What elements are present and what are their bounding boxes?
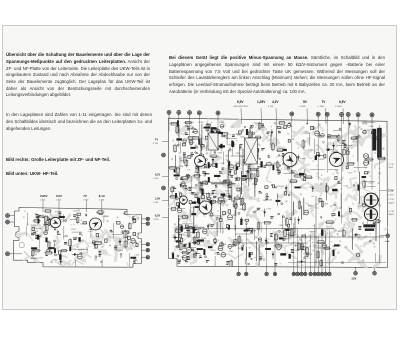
capacitor C731	[299, 173, 304, 175]
capacitor C520	[195, 206, 200, 207]
terminal node 15V	[351, 267, 358, 283]
diode D601	[316, 154, 324, 157]
resistor R299	[251, 172, 253, 180]
capacitor C400	[220, 218, 223, 221]
resistor R280	[206, 123, 209, 132]
coil L301 black bar	[373, 129, 377, 150]
capacitor C697	[273, 165, 275, 170]
trimmer C659	[218, 246, 223, 251]
diode D696	[348, 122, 351, 128]
resistor R339	[176, 125, 178, 134]
terminal node 10 IF board	[346, 113, 350, 169]
capacitor C812	[333, 250, 335, 256]
resistor R443	[193, 236, 196, 246]
capacitor C155	[95, 245, 97, 249]
capacitor C467	[179, 225, 182, 228]
node N365	[206, 159, 208, 161]
diode D258	[197, 163, 200, 171]
diode D704	[353, 234, 360, 237]
resistor R699	[377, 157, 386, 160]
node N176	[120, 253, 122, 255]
node N568	[238, 212, 240, 214]
value label L105	[73, 210, 78, 212]
resistor R545	[286, 217, 289, 226]
svg-text:0,95V: 0,95V	[40, 194, 48, 198]
value label M416	[188, 187, 192, 191]
capacitor C382	[246, 129, 248, 135]
capacitor C228	[70, 247, 72, 251]
diode D332	[201, 141, 204, 149]
wire W759	[216, 128, 218, 143]
wire W763	[178, 219, 180, 243]
capacitor C507	[207, 197, 210, 199]
trimmer C602	[218, 199, 223, 204]
value label M706	[306, 253, 309, 257]
value label L208	[104, 216, 110, 218]
node N407	[205, 256, 207, 258]
capacitor C170	[77, 213, 80, 215]
wire W771	[301, 206, 303, 220]
svg-text:C 1301: C 1301	[299, 106, 306, 108]
resistor R351	[257, 169, 259, 178]
wire W788	[231, 181, 233, 200]
node N233	[226, 137, 228, 139]
diode D657	[311, 186, 314, 192]
capacitor C204	[128, 236, 131, 239]
capacitor C265	[188, 156, 191, 159]
value label L543	[267, 209, 272, 211]
terminal node 9 IF board	[340, 113, 344, 224]
value label M166	[54, 226, 57, 230]
capacitor C383	[181, 238, 183, 242]
capacitor C158	[59, 251, 61, 255]
resistor R450	[174, 230, 183, 233]
capacitor C588	[189, 243, 190, 249]
value label L114	[71, 249, 77, 251]
resistor R741	[230, 259, 233, 268]
value label M310	[222, 168, 224, 170]
voltage label 6,2V C 180 left	[153, 174, 169, 181]
value label M686	[378, 219, 381, 223]
node N531	[251, 231, 253, 233]
value label L106	[52, 260, 58, 262]
diode D505	[193, 252, 200, 255]
svg-text:6mA: 6mA	[385, 240, 390, 243]
capacitor C447	[214, 239, 217, 242]
diode D524	[240, 217, 243, 223]
node N230	[252, 132, 254, 134]
value label M500	[206, 260, 209, 262]
diode D157	[119, 238, 122, 246]
capacitor C474	[232, 141, 234, 147]
resistor R349	[249, 168, 258, 171]
capacitor C199	[32, 228, 35, 231]
svg-text:7V: 7V	[83, 194, 87, 198]
svg-text:C197: C197	[222, 201, 228, 203]
svg-text:5V: 5V	[303, 100, 308, 104]
resistor R621	[265, 163, 273, 166]
value label M404	[180, 226, 183, 228]
value label M370	[187, 175, 191, 177]
value label L534	[267, 200, 273, 202]
value label M489	[228, 184, 231, 188]
terminal node 9 bottom	[309, 235, 313, 276]
value label M250	[204, 164, 207, 168]
capacitor C324	[234, 171, 236, 174]
wire W782	[185, 226, 205, 228]
value label M461	[185, 258, 188, 262]
value label L266	[217, 152, 223, 154]
value label M142	[45, 252, 48, 256]
resistor R734	[317, 250, 319, 260]
value label M697	[358, 226, 361, 230]
terminal node 6mA	[379, 234, 390, 243]
value label L291	[228, 145, 234, 147]
voltage label 0,5V C 921	[56, 194, 62, 212]
capacitor C479	[217, 132, 223, 134]
node N182	[98, 242, 100, 244]
trimmer C750	[276, 244, 281, 249]
wire W772	[303, 198, 305, 215]
node N562	[250, 232, 252, 234]
voltage label 0,95V C 901	[40, 194, 48, 212]
svg-text:500µF: 500µF	[389, 202, 395, 204]
lead wires UKW board	[26, 213, 144, 274]
capacitor C571	[181, 226, 183, 231]
capacitor C629	[285, 229, 290, 231]
resistor R136	[69, 238, 72, 247]
resistor R312	[184, 155, 186, 164]
trimmer C412	[131, 239, 135, 243]
resistor R709	[316, 241, 325, 244]
capacitor C572	[172, 254, 174, 260]
resistor R244	[190, 138, 193, 146]
diode D438	[207, 224, 210, 230]
svg-text:T 302: T 302	[362, 121, 368, 123]
diode D415	[194, 239, 201, 242]
resistor R653	[298, 200, 300, 210]
resistor R344	[174, 144, 177, 154]
value label M642	[278, 171, 282, 175]
wire W783	[193, 207, 195, 230]
capacitor C528	[202, 189, 204, 195]
svg-text:C336: C336	[52, 260, 58, 262]
node N343	[227, 160, 229, 162]
capacitor C695	[315, 156, 317, 160]
capacitor C616	[311, 126, 314, 129]
svg-text:R219: R219	[219, 122, 225, 124]
value label M347	[235, 178, 238, 180]
svg-text:2,9V: 2,9V	[155, 198, 160, 201]
wire bus lower right	[175, 196, 386, 266]
value label L112	[71, 229, 77, 231]
capacitor C590	[316, 153, 319, 156]
resistor R466	[181, 216, 189, 219]
node N490	[178, 218, 180, 220]
value label M497	[215, 184, 218, 188]
node N275	[217, 148, 219, 150]
value label M141	[42, 216, 44, 218]
resistor R388	[199, 181, 202, 190]
resistor R117	[33, 220, 41, 222]
diode D492	[192, 241, 199, 244]
diode D622	[297, 155, 300, 161]
mounting hole UKW board	[20, 243, 25, 248]
node N399	[177, 255, 179, 257]
capacitor C240	[243, 160, 245, 163]
svg-text:1,25V: 1,25V	[257, 100, 266, 104]
diode D570	[265, 238, 268, 245]
capacitor C438	[204, 127, 210, 128]
value label L594	[320, 159, 326, 161]
capacitor C729	[334, 152, 338, 153]
value label M295	[202, 171, 205, 173]
value label M474	[228, 196, 232, 200]
capacitor C720	[288, 156, 294, 158]
wire W768	[357, 137, 359, 162]
value label L121	[31, 258, 37, 260]
capacitor C494	[176, 241, 180, 243]
value label L701	[357, 206, 362, 208]
value label L613	[287, 156, 293, 158]
capacitor C656	[279, 238, 283, 240]
value label M747	[259, 256, 262, 260]
voltage label 1,25V	[257, 100, 266, 124]
diode D118	[130, 241, 137, 244]
svg-text:R514: R514	[191, 128, 197, 130]
resistor R377	[254, 177, 256, 187]
wire W750	[292, 202, 294, 216]
value label M495	[186, 227, 189, 231]
value label M326	[255, 146, 258, 148]
IF transformer F101	[245, 138, 258, 164]
label C734 300uF	[389, 211, 395, 216]
terminal node 3 UKW	[6, 252, 23, 256]
value label M738	[274, 263, 277, 265]
terminal node 7 UKW	[141, 249, 149, 252]
resistor R553	[238, 235, 241, 244]
capacitor C442	[261, 162, 263, 168]
value label M638	[263, 165, 266, 167]
node N711	[341, 262, 343, 264]
diode D242	[203, 172, 210, 175]
node N479	[216, 217, 218, 219]
capacitor C846	[289, 254, 291, 258]
value label M116	[33, 232, 36, 234]
node N520	[245, 223, 247, 225]
value label L260	[243, 165, 249, 167]
value label M617	[288, 163, 291, 165]
trimmer C903	[362, 203, 365, 206]
capacitor C209	[105, 239, 107, 243]
svg-text:R220: R220	[211, 250, 217, 252]
capacitor C615	[265, 248, 270, 250]
capacitor C616	[241, 219, 243, 225]
node N691	[356, 234, 358, 236]
svg-text:0,5V: 0,5V	[56, 194, 62, 198]
node N555	[234, 241, 236, 243]
value label M397	[212, 200, 214, 204]
resistor R702	[371, 137, 380, 139]
resistor R366	[210, 140, 218, 143]
wire W787	[242, 149, 244, 175]
value label M247	[239, 144, 242, 148]
node N217	[188, 137, 190, 139]
value label M627	[277, 169, 281, 171]
value label L251	[208, 128, 213, 130]
value label L558	[278, 225, 284, 227]
value label L652	[308, 206, 314, 208]
capacitor C463	[210, 213, 213, 216]
svg-text:C 180: C 180	[153, 178, 159, 180]
svg-text:C 1302: C 1302	[318, 106, 325, 108]
node N745	[195, 254, 197, 256]
capacitor C368	[212, 131, 214, 136]
capacitor C369	[254, 155, 257, 158]
resistor R635	[304, 176, 313, 179]
capacitor C246	[95, 242, 99, 244]
value label L633	[291, 171, 297, 173]
resistor R259	[191, 137, 200, 139]
resistor R611	[276, 161, 279, 169]
terminal node 7 bottom	[300, 235, 304, 276]
value label L287	[245, 163, 250, 165]
resistor R243	[254, 136, 262, 139]
value label M724	[291, 249, 294, 253]
node N566	[278, 230, 280, 232]
trimmer C401	[46, 221, 49, 224]
node N506	[185, 216, 187, 218]
resistor R220	[248, 130, 251, 139]
capacitor C169	[96, 234, 99, 237]
capacitor C229	[59, 255, 61, 260]
node N582	[275, 187, 277, 189]
value label M373	[242, 178, 245, 180]
resistor R172	[44, 210, 53, 212]
node N732	[182, 256, 183, 257]
svg-text:4 T01: 4 T01	[153, 143, 159, 145]
coil L302 black bar	[377, 128, 381, 158]
resistor R164	[77, 216, 79, 225]
value label M115	[35, 235, 38, 239]
terminal node 4 IF board	[197, 111, 201, 144]
resistor R405	[175, 246, 183, 248]
trace line right edge	[378, 125, 380, 263]
trimmer C664	[182, 255, 187, 260]
value label M695	[355, 136, 359, 138]
value label L572	[285, 238, 291, 240]
terminal node 4 bottom	[273, 235, 277, 276]
capacitor C458	[226, 225, 228, 228]
diode D290	[245, 170, 252, 173]
node N726	[251, 258, 252, 259]
voltage label 6,5V C 1303	[335, 100, 346, 124]
value label L149	[79, 253, 85, 255]
resistor R648	[321, 200, 323, 208]
voltage label 7,5V C 730	[379, 164, 394, 197]
resistor R639	[278, 122, 286, 125]
voltage label TV 4 T01 left	[153, 139, 169, 146]
wire W764	[325, 183, 327, 200]
capacitor C819	[204, 249, 206, 255]
svg-text:C 732: C 732	[389, 164, 394, 166]
resistor R717	[323, 247, 331, 249]
trimmer C940	[323, 244, 327, 248]
node N615	[339, 128, 341, 130]
value label M309	[250, 158, 253, 160]
capacitor C591	[197, 198, 199, 203]
resistor R375	[258, 122, 261, 130]
value label L380	[191, 128, 197, 130]
value label L664	[338, 231, 344, 233]
node N502	[206, 183, 208, 185]
value label L168	[88, 231, 94, 233]
copper traces UKW board	[13, 207, 152, 276]
value label L165	[134, 254, 139, 256]
node N354	[244, 126, 245, 127]
capacitor C518	[214, 239, 216, 244]
trimmer C383	[44, 231, 48, 235]
terminal node 5 UKW	[141, 222, 149, 225]
value label L279	[178, 166, 184, 168]
value label L107	[80, 224, 85, 226]
node N229	[214, 152, 216, 154]
trimmer C492	[252, 144, 256, 148]
value label M592	[287, 165, 291, 169]
resistor R103	[124, 240, 127, 249]
node N131	[81, 252, 82, 253]
resistor R689	[364, 158, 374, 161]
capacitor C420	[210, 139, 212, 143]
resistor R577	[291, 228, 293, 238]
node N484	[230, 182, 232, 184]
node N551	[288, 194, 290, 196]
capacitor C671	[244, 230, 248, 231]
value label L190	[116, 250, 122, 252]
value label L372	[190, 128, 196, 130]
trimmer C744	[233, 203, 237, 207]
resistor R647	[326, 184, 329, 193]
value label M589	[291, 170, 295, 172]
value label L231	[213, 135, 219, 137]
value label M599	[278, 131, 281, 133]
diode D618	[326, 148, 333, 151]
capacitor C465	[176, 203, 179, 206]
resistor R526	[245, 228, 253, 230]
resistor R540	[274, 233, 277, 242]
capacitor C671	[376, 199, 379, 202]
value label M591	[289, 123, 292, 127]
node N108	[95, 256, 97, 258]
value label L511	[213, 197, 218, 199]
capacitor C341	[232, 142, 234, 147]
value label L663	[323, 204, 328, 206]
capacitor C565	[288, 224, 290, 227]
value label M563	[259, 191, 263, 193]
resistor R222	[196, 165, 199, 175]
node N301	[214, 144, 216, 146]
wire W773	[252, 131, 254, 155]
voltage label 6,5V C300 90/25,4L37	[233, 100, 249, 124]
resistor R606	[302, 139, 305, 149]
value label M391	[213, 196, 216, 198]
value label M225	[257, 166, 260, 168]
capacitor C630	[288, 139, 290, 142]
value label L728	[293, 250, 299, 252]
voltage label 8,2V C 190 left	[153, 215, 169, 222]
resistor R167	[96, 211, 104, 214]
resistor R378	[193, 174, 201, 177]
